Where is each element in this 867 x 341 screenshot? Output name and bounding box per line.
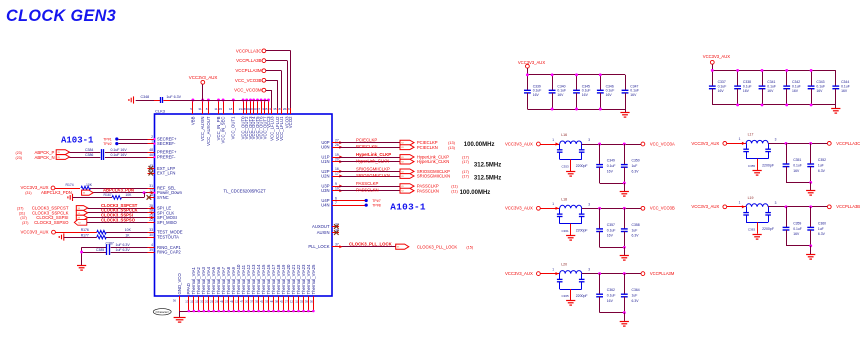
svg-text:C350: C350 (632, 159, 640, 163)
svg-text:VCC3V3_AUX: VCC3V3_AUX (518, 60, 545, 65)
svg-text:U0N: U0N (321, 145, 329, 150)
svg-text:C353: C353 (562, 165, 570, 169)
svg-text:VCC3V3_AUX: VCC3V3_AUX (505, 141, 533, 146)
svg-text:0.1uF: 0.1uF (607, 228, 616, 232)
svg-text:RING_CAP2: RING_CAP2 (157, 250, 181, 255)
svg-text:C362: C362 (607, 288, 615, 292)
svg-text:16V: 16V (607, 234, 614, 238)
svg-text:39: 39 (305, 300, 309, 304)
svg-text:SRIOSGMIICLKN: SRIOSGMIICLKN (417, 174, 450, 179)
svg-text:C361: C361 (562, 229, 570, 233)
svg-text:2: 2 (151, 135, 153, 139)
svg-text:11: 11 (214, 107, 217, 111)
svg-text:VCC_AUXIN: VCC_AUXIN (200, 117, 205, 142)
svg-text:C365: C365 (562, 294, 570, 298)
svg-text:3: 3 (775, 201, 777, 205)
svg-text:VCCPLLA3M: VCCPLLA3M (650, 271, 675, 276)
svg-text:6.3V: 6.3V (632, 169, 640, 173)
svg-text:6.3V: 6.3V (818, 169, 826, 173)
svg-text:PLL_LOCK: PLL_LOCK (308, 244, 329, 249)
svg-text:CLOCK3_PLL_LOCK: CLOCK3_PLL_LOCK (417, 244, 457, 249)
svg-text:L18: L18 (561, 197, 567, 201)
svg-text:(37): (37) (22, 221, 28, 225)
svg-text:0.1uF: 0.1uF (630, 89, 639, 93)
svg-text:17: 17 (335, 172, 339, 176)
svg-text:VCC3V3_AUX: VCC3V3_AUX (703, 54, 730, 59)
svg-text:VCC_VCO3B: VCC_VCO3B (650, 206, 675, 211)
svg-text:TP#2: TP#2 (103, 142, 111, 146)
svg-text:18: 18 (229, 107, 233, 111)
svg-text:48: 48 (149, 148, 153, 152)
svg-text:3: 3 (588, 138, 590, 142)
svg-text:(31): (31) (19, 211, 25, 215)
svg-text:0.1uF: 0.1uF (841, 85, 850, 89)
svg-text:6.3V: 6.3V (632, 299, 640, 303)
svg-text:11: 11 (295, 300, 298, 304)
svg-text:33: 33 (200, 300, 204, 304)
svg-text:42: 42 (260, 300, 264, 304)
svg-text:47: 47 (240, 300, 244, 304)
svg-text:SYNC: SYNC (157, 195, 169, 200)
svg-text:C340: C340 (557, 84, 565, 88)
svg-text:16V: 16V (630, 93, 637, 97)
svg-text:1uF 6.3V: 1uF 6.3V (116, 248, 131, 252)
svg-text:(37): (37) (20, 216, 26, 220)
svg-text:16: 16 (335, 167, 339, 171)
svg-text:SECREF-: SECREF- (157, 141, 176, 146)
svg-text:VCC_VCO3M: VCC_VCO3M (234, 88, 262, 93)
svg-text:PCIECLKN: PCIECLKN (356, 144, 378, 149)
svg-text:1uF: 1uF (632, 228, 638, 232)
svg-text:12: 12 (235, 300, 239, 304)
svg-text:R177: R177 (81, 233, 89, 237)
svg-text:PCIECLKP: PCIECLKP (356, 138, 377, 143)
svg-text:1K: 1K (125, 233, 130, 237)
svg-text:0.1uF 16V: 0.1uF 16V (111, 153, 128, 157)
svg-text:6.3V: 6.3V (632, 234, 640, 238)
svg-text:C352: C352 (818, 158, 826, 162)
svg-text:(23): (23) (16, 151, 22, 155)
svg-text:HyperLink_CLKN: HyperLink_CLKN (417, 159, 449, 164)
svg-text:30: 30 (310, 300, 314, 304)
svg-text:0.1uF: 0.1uF (792, 85, 801, 89)
svg-text:16V: 16V (557, 93, 564, 97)
svg-text:0.1uF: 0.1uF (533, 89, 542, 93)
svg-text:C386: C386 (85, 153, 93, 157)
svg-text:U2N: U2N (321, 174, 329, 179)
svg-text:48: 48 (230, 300, 234, 304)
svg-text:19: 19 (335, 153, 339, 157)
svg-text:L20: L20 (561, 263, 567, 267)
svg-text:VCC_VCO3A: VCC_VCO3A (650, 141, 675, 146)
svg-text:2200pF: 2200pF (576, 164, 588, 168)
svg-text:12: 12 (290, 300, 294, 304)
svg-text:(17): (17) (462, 160, 469, 164)
svg-text:35: 35 (255, 300, 259, 304)
svg-text:1: 1 (552, 267, 554, 271)
svg-text:(11): (11) (451, 189, 458, 193)
svg-text:16V: 16V (606, 93, 613, 97)
svg-text:1uF: 1uF (632, 294, 638, 298)
svg-text:(17): (17) (462, 175, 469, 179)
svg-text:27: 27 (285, 300, 289, 304)
svg-text:10: 10 (335, 187, 339, 191)
svg-text:3: 3 (588, 268, 590, 272)
svg-text:C358: C358 (632, 223, 640, 227)
svg-text:(15): (15) (466, 245, 473, 249)
svg-text:VCC3V3_AUX: VCC3V3_AUX (21, 230, 49, 235)
svg-text:16V: 16V (607, 169, 614, 173)
svg-text:1: 1 (739, 137, 741, 141)
svg-text:AUXOUT: AUXOUT (312, 224, 330, 229)
svg-text:(37): (37) (17, 207, 23, 211)
svg-text:0.1uF: 0.1uF (607, 164, 616, 168)
svg-text:A103-1: A103-1 (390, 201, 426, 212)
svg-text:C347: C347 (630, 84, 638, 88)
svg-text:0.1uF: 0.1uF (582, 89, 591, 93)
svg-text:HyperLink_CLKP: HyperLink_CLKP (356, 152, 391, 157)
svg-text:6: 6 (335, 196, 337, 200)
svg-text:A103-1: A103-1 (61, 135, 94, 145)
svg-text:U3N: U3N (321, 188, 329, 193)
svg-text:C360: C360 (818, 221, 826, 225)
svg-text:C346: C346 (606, 84, 614, 88)
svg-text:0.1uF: 0.1uF (793, 227, 802, 231)
svg-text:HyperLink_CLKN: HyperLink_CLKN (356, 158, 389, 163)
svg-text:AUXIN: AUXIN (317, 230, 330, 235)
svg-text:0.1uF 16V: 0.1uF 16V (111, 148, 128, 152)
svg-text:16V: 16V (718, 89, 725, 93)
svg-text:C343: C343 (816, 80, 824, 84)
svg-text:CLOCK GEN3: CLOCK GEN3 (6, 7, 116, 25)
svg-text:C344: C344 (841, 80, 849, 84)
svg-text:42: 42 (280, 300, 284, 304)
svg-text:PASSCLKP: PASSCLKP (356, 181, 379, 186)
svg-text:6.3V: 6.3V (818, 232, 826, 236)
svg-text:C342: C342 (792, 80, 800, 84)
svg-text:20: 20 (245, 300, 249, 304)
svg-text:31: 31 (198, 107, 202, 111)
svg-text:(17): (17) (462, 170, 469, 174)
svg-text:CLK3: CLK3 (155, 108, 166, 113)
svg-text:2200pF: 2200pF (576, 294, 588, 298)
svg-text:C349: C349 (607, 159, 615, 163)
svg-text:VCC_LFLU2: VCC_LFLU2 (275, 116, 280, 141)
svg-text:TESTOUTA: TESTOUTA (157, 235, 179, 240)
svg-text:PASSCLKN: PASSCLKN (356, 188, 379, 193)
svg-text:16V: 16V (793, 169, 800, 173)
svg-text:44: 44 (270, 300, 274, 304)
svg-text:31: 31 (149, 184, 153, 188)
svg-text:15: 15 (195, 300, 199, 304)
svg-text:10K: 10K (125, 193, 132, 197)
svg-text:C351: C351 (793, 158, 801, 162)
svg-text:33: 33 (300, 300, 304, 304)
svg-text:0.1uF: 0.1uF (606, 89, 615, 93)
svg-text:L16: L16 (561, 133, 567, 137)
svg-text:VCCPLLA3B: VCCPLLA3B (236, 58, 261, 63)
svg-text:30: 30 (149, 233, 153, 237)
svg-text:C357: C357 (607, 223, 615, 227)
svg-text:23: 23 (225, 300, 229, 304)
svg-text:TP#7: TP#7 (372, 199, 380, 203)
svg-text:38: 38 (275, 300, 279, 304)
svg-text:(17): (17) (462, 156, 469, 160)
svg-text:C338: C338 (743, 80, 751, 84)
svg-text:VCCPLLA3M: VCCPLLA3M (235, 68, 261, 73)
svg-text:VCC3V3_AUX: VCC3V3_AUX (691, 204, 719, 209)
svg-text:10K: 10K (125, 228, 132, 232)
svg-text:PASSCLKN: PASSCLKN (417, 188, 439, 193)
svg-text:1uF: 1uF (818, 163, 824, 167)
svg-text:2200pF: 2200pF (576, 229, 588, 233)
svg-text:VCCPLLA3B: VCCPLLA3B (836, 204, 860, 209)
svg-text:U4N: U4N (321, 203, 329, 208)
svg-text:R176: R176 (81, 228, 89, 232)
svg-text:ABPCLK3_PDN: ABPCLK3_PDN (41, 190, 72, 195)
svg-text:48: 48 (220, 300, 224, 304)
svg-text:VCC_OUT1: VCC_OUT1 (231, 116, 236, 140)
svg-text:L17: L17 (748, 132, 754, 136)
svg-text:33: 33 (149, 228, 153, 232)
svg-text:0.1uF: 0.1uF (793, 163, 802, 167)
svg-text:VCO3: VCO3 (285, 116, 290, 128)
svg-text:37: 37 (335, 243, 339, 247)
svg-text:39: 39 (149, 248, 153, 252)
svg-text:R174: R174 (66, 183, 74, 187)
svg-text:46: 46 (149, 153, 153, 157)
svg-text:TP#1: TP#1 (103, 138, 111, 142)
svg-text:26: 26 (215, 300, 219, 304)
svg-text:1: 1 (151, 139, 153, 143)
svg-text:13: 13 (185, 300, 189, 304)
svg-text:100.00MHz: 100.00MHz (464, 142, 495, 148)
svg-text:312.5MHz: 312.5MHz (474, 162, 501, 168)
svg-text:16V: 16V (582, 93, 589, 97)
svg-text:2200pF: 2200pF (762, 227, 774, 231)
svg-text:VCC_VCO3B: VCC_VCO3B (235, 78, 262, 83)
svg-text:35: 35 (273, 107, 277, 111)
svg-text:4: 4 (151, 243, 153, 247)
svg-text:PREREF-: PREREF- (157, 155, 176, 160)
svg-text:VCC_AUXOUT: VCC_AUXOUT (206, 116, 211, 146)
svg-text:C385: C385 (96, 248, 104, 252)
svg-text:2200pF: 2200pF (762, 164, 774, 168)
svg-text:(13): (13) (448, 146, 455, 150)
svg-text:27: 27 (335, 138, 339, 142)
svg-text:16V: 16V (607, 299, 614, 303)
svg-text:1: 1 (552, 138, 554, 142)
svg-text:C339: C339 (533, 84, 541, 88)
svg-text:SRIOSGMIICLKP: SRIOSGMIICLKP (356, 167, 390, 172)
svg-text:TP#8: TP#8 (372, 204, 380, 208)
svg-text:1uF 6.3V: 1uF 6.3V (166, 95, 181, 99)
svg-text:0.1uF: 0.1uF (767, 85, 776, 89)
svg-text:(11): (11) (451, 185, 458, 189)
svg-text:SRIOSGMIICLKN: SRIOSGMIICLKN (356, 173, 390, 178)
svg-text:0.1uF: 0.1uF (743, 85, 752, 89)
svg-text:0.1uF: 0.1uF (816, 85, 825, 89)
svg-text:(23): (23) (16, 156, 22, 160)
svg-text:29: 29 (286, 107, 290, 111)
svg-text:GND_VCO: GND_VCO (177, 273, 182, 295)
svg-text:VCC_LFLU3: VCC_LFLU3 (269, 116, 274, 141)
svg-text:26: 26 (335, 143, 339, 147)
svg-text:9: 9 (335, 182, 337, 186)
svg-text:312.5MHz: 312.5MHz (474, 175, 501, 181)
svg-text:16V: 16V (533, 93, 540, 97)
svg-text:C363: C363 (748, 227, 756, 231)
svg-text:Thermal_VIA25: Thermal_VIA25 (311, 264, 316, 294)
svg-text:EXT_LFN: EXT_LFN (157, 171, 175, 176)
svg-text:33: 33 (265, 300, 269, 304)
svg-text:3: 3 (588, 202, 590, 206)
svg-text:C348: C348 (141, 95, 150, 99)
svg-text:0.1uF: 0.1uF (718, 85, 727, 89)
svg-text:35: 35 (264, 107, 268, 111)
svg-text:16V: 16V (767, 89, 774, 93)
svg-text:1uF: 1uF (632, 164, 638, 168)
svg-text:16V: 16V (743, 89, 750, 93)
svg-text:16V: 16V (841, 89, 848, 93)
svg-text:C337: C337 (718, 80, 726, 84)
svg-text:ABPCLK3_PDN: ABPCLK3_PDN (103, 188, 134, 193)
svg-text:SPI_MISO: SPI_MISO (157, 220, 178, 225)
svg-text:15: 15 (190, 300, 194, 304)
svg-text:VCC3V3_AUX: VCC3V3_AUX (691, 141, 719, 146)
svg-text:L19: L19 (748, 196, 754, 200)
svg-text:VCC3V3_AUX: VCC3V3_AUX (505, 271, 533, 276)
svg-text:16V: 16V (793, 232, 800, 236)
svg-text:10K: 10K (86, 183, 93, 187)
svg-text:PCIECLKN: PCIECLKN (417, 145, 438, 150)
svg-text:VCCPLLA3C: VCCPLLA3C (236, 48, 262, 53)
svg-text:CLOCK3_SSPSO: CLOCK3_SSPSO (101, 217, 136, 222)
svg-text:C387: C387 (106, 242, 114, 246)
svg-text:CLOCK3_SSPSO: CLOCK3_SSPSO (34, 220, 69, 225)
svg-text:7: 7 (335, 201, 337, 205)
svg-text:100.00MHz: 100.00MHz (460, 190, 491, 196)
svg-text:VCCPLLA3C: VCCPLLA3C (836, 141, 860, 146)
svg-text:U1N: U1N (321, 159, 329, 164)
svg-text:29: 29 (210, 300, 214, 304)
svg-text:TL_CDCE62005RGZT: TL_CDCE62005RGZT (224, 189, 267, 194)
svg-text:C384: C384 (85, 148, 93, 152)
svg-text:R167: R167 (104, 193, 112, 197)
svg-text:<Character>: <Character> (155, 310, 170, 314)
svg-text:1: 1 (552, 202, 554, 206)
svg-text:1uF 6.3V: 1uF 6.3V (116, 243, 131, 247)
svg-text:VCC3V3_AUX: VCC3V3_AUX (189, 75, 218, 80)
svg-text:47: 47 (257, 107, 261, 111)
svg-text:20: 20 (205, 300, 209, 304)
svg-text:(13): (13) (448, 141, 455, 145)
svg-text:0.1uF: 0.1uF (557, 89, 566, 93)
svg-text:26: 26 (283, 107, 287, 111)
svg-text:16V: 16V (792, 89, 799, 93)
svg-text:C355: C355 (748, 164, 756, 168)
svg-text:ABPCK_N: ABPCK_N (35, 155, 55, 160)
svg-text:37: 37 (250, 300, 254, 304)
svg-text:C364: C364 (632, 288, 640, 292)
svg-text:1: 1 (739, 201, 741, 205)
svg-text:20: 20 (335, 157, 339, 161)
svg-text:VBB: VBB (190, 116, 195, 125)
svg-text:C341: C341 (767, 80, 775, 84)
svg-text:0.1uF: 0.1uF (607, 294, 616, 298)
svg-text:36: 36 (173, 299, 177, 303)
svg-text:16V: 16V (816, 89, 823, 93)
svg-text:15: 15 (219, 107, 223, 111)
svg-text:(31): (31) (25, 191, 31, 195)
svg-text:3: 3 (775, 137, 777, 141)
svg-text:1uF: 1uF (818, 227, 824, 231)
svg-text:CLOCK3_PLL_LOCK: CLOCK3_PLL_LOCK (349, 241, 393, 246)
svg-text:C359: C359 (793, 221, 801, 225)
svg-text:C345: C345 (582, 84, 590, 88)
svg-text:VCC3V3_AUX: VCC3V3_AUX (505, 206, 533, 211)
svg-text:VCC_IN_SEC: VCC_IN_SEC (221, 117, 226, 144)
